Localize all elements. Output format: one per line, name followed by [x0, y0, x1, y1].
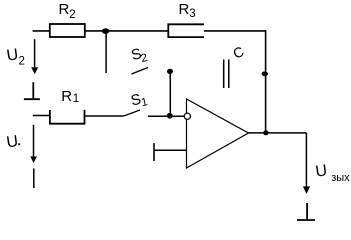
label U2 [6, 46, 25, 67]
node dot inverting input [167, 113, 173, 119]
label S1 [129, 90, 149, 112]
svg-text:R: R [59, 1, 70, 18]
label U vyh [314, 162, 350, 184]
wire stub below U1 arrow [33, 168, 35, 188]
resistor R3 (open on right) [168, 24, 204, 37]
wire from node A down to switch S2 [105, 31, 107, 73]
svg-text:R: R [61, 88, 72, 105]
svg-text:U: U [314, 162, 328, 180]
node A junction dot [102, 28, 109, 34]
label U1 [5, 133, 20, 151]
svg-text:2: 2 [69, 9, 75, 21]
wire inverting net vertical [169, 71, 171, 115]
label R3 [179, 1, 196, 20]
resistor R1 (open on top) [50, 110, 85, 124]
source arrow U2 [31, 39, 38, 74]
svg-text:U: U [5, 133, 19, 151]
switch S2 blade [132, 68, 149, 75]
wire top rail right segment and right rail down [204, 31, 266, 133]
svg-text:1: 1 [73, 93, 79, 105]
source arrow U1 [30, 125, 37, 163]
node dot on right rail (capacitor) [262, 71, 268, 76]
wire top rail middle segment [85, 30, 169, 32]
wire R1 row left segment [33, 115, 50, 117]
label C [230, 43, 246, 62]
svg-text:зых: зых [331, 172, 350, 184]
node dot output junction [263, 130, 268, 135]
svg-text:U: U [6, 46, 20, 64]
op-amp U1 triangle [187, 99, 249, 168]
switch S1 blade [124, 110, 140, 116]
label R1 [61, 88, 79, 105]
output arrow U_vyh [303, 133, 310, 194]
svg-text:2: 2 [19, 56, 25, 68]
ground for U2 [24, 82, 40, 99]
svg-text:R: R [179, 1, 190, 18]
ground at output [297, 203, 315, 220]
node dot top of inverting net [167, 69, 173, 74]
wire S1 to inverting input node [148, 115, 184, 117]
wire op-amp output [249, 132, 307, 134]
label S2 [129, 44, 148, 67]
wire top rail left segment [33, 30, 50, 32]
resistor R2 [50, 24, 85, 37]
svg-text:3: 3 [189, 8, 195, 20]
capacitor C plates [224, 60, 229, 89]
label R2 [59, 1, 76, 21]
wire R1 to switch S1 [85, 115, 123, 117]
op-amp inverting input bubble [184, 113, 190, 119]
ground bar for non-inverting input [153, 143, 155, 161]
wire non-inverting input [154, 149, 186, 151]
